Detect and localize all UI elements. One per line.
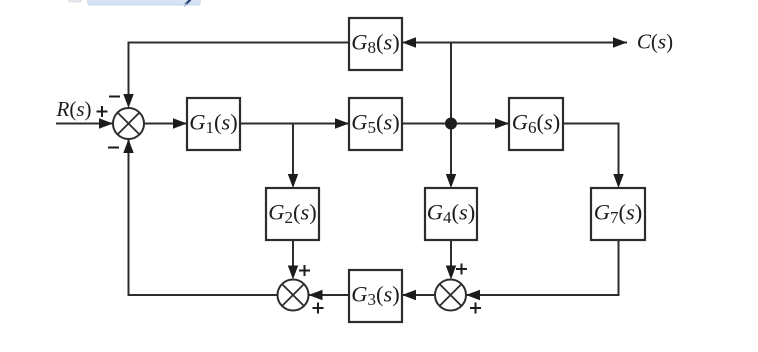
svg-text:G8(s): G8(s): [351, 30, 400, 58]
svg-text:G2(s): G2(s): [268, 200, 317, 228]
svg-text:C(s): C(s): [637, 30, 673, 54]
svg-text:R(s): R(s): [55, 97, 91, 121]
svg-text:G7(s): G7(s): [594, 200, 643, 228]
svg-text:G5(s): G5(s): [351, 110, 400, 138]
svg-text:G3(s): G3(s): [351, 282, 400, 310]
svg-text:G6(s): G6(s): [512, 110, 561, 138]
svg-text:G1(s): G1(s): [189, 110, 238, 138]
svg-text:G4(s): G4(s): [427, 200, 476, 228]
